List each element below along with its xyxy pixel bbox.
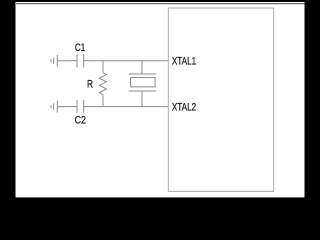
IC U1 (microcontroller box)	[168, 8, 273, 191]
svg-text:C1: C1	[75, 42, 85, 54]
crystal Y1	[129, 61, 157, 107]
resistor R	[99, 61, 106, 107]
wire: top ground to C1	[57, 60, 76, 62]
capacitor C2	[77, 100, 84, 113]
wire: bottom ground to C2	[57, 106, 76, 108]
capacitor C1	[77, 54, 84, 67]
svg-text:XTAL1: XTAL1	[172, 55, 196, 67]
svg-text:C2: C2	[75, 114, 86, 126]
svg-text:XTAL2: XTAL2	[172, 101, 196, 113]
wire: C2 to XTAL2 pin (bottom rail)	[84, 106, 168, 108]
ground (top, rotated left)	[51, 55, 57, 67]
svg-text:R: R	[87, 78, 93, 90]
white page	[16, 2, 305, 197]
ground (bottom, rotated left)	[51, 101, 57, 113]
wire: C1 to XTAL1 pin (top rail)	[84, 60, 168, 62]
page top rule	[16, 3, 305, 5]
